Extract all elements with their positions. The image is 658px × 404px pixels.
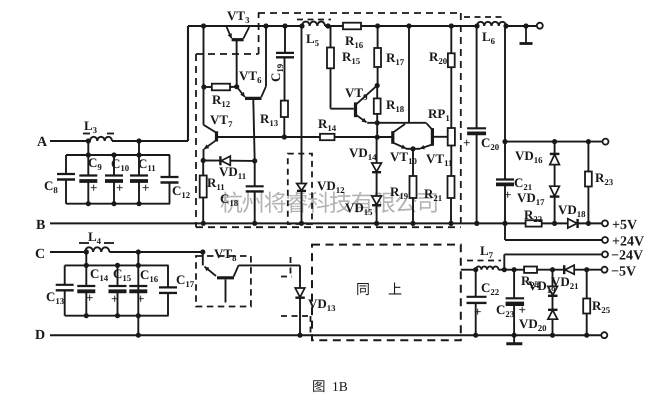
transistor VT11 xyxy=(431,128,434,146)
svg-text:上: 上 xyxy=(388,282,402,298)
dashed box around VD12 xyxy=(288,154,312,224)
svg-text:−5V: −5V xyxy=(611,265,636,280)
diode VD21 xyxy=(563,265,565,274)
wire: top +rail y=26 xyxy=(188,25,302,27)
capacitor C22 (polarized) xyxy=(475,270,477,297)
wire: +24V row xyxy=(505,239,603,241)
inductor L4 xyxy=(85,247,109,252)
capacitor C21 (polarized) xyxy=(504,26,506,180)
transistor VT6 xyxy=(237,87,245,97)
diode VD19 xyxy=(552,270,554,287)
diode VD14 xyxy=(376,137,378,163)
dashed box: same-as-above module xyxy=(312,245,461,341)
terminal: D rail right end xyxy=(601,332,607,338)
wire: VT7 base row y=137 xyxy=(217,136,320,138)
diode VD17 (zener) xyxy=(550,186,560,196)
resistor R11 xyxy=(202,161,204,176)
resistor R21 xyxy=(448,176,455,198)
wire: lower cap bank top bus xyxy=(85,252,87,265)
dashed box around VT8 xyxy=(196,256,251,307)
ground stub at top right xyxy=(525,26,527,43)
resistor R13 xyxy=(281,101,288,117)
svg-text:同: 同 xyxy=(356,282,370,298)
svg-text:图: 图 xyxy=(312,379,326,394)
capacitor C10 (polarized) xyxy=(113,155,115,176)
dashed fragments around VD13 xyxy=(290,257,292,277)
diode VD15 xyxy=(372,196,382,205)
capacitor C12 xyxy=(169,155,171,177)
capacitor C15 (polarized) xyxy=(117,265,119,286)
capacitor C20 (polarized) xyxy=(476,26,478,128)
node: junction dots on top rail xyxy=(201,23,206,28)
svg-text:+: + xyxy=(116,180,123,195)
capacitor C18 xyxy=(254,161,256,186)
resistor R16 (in series on top rail) xyxy=(343,23,361,30)
capacitor C16 (polarized) xyxy=(129,285,147,287)
wire: VT8 to VD13 xyxy=(239,264,301,266)
capacitor C8 xyxy=(65,155,67,174)
svg-text:+: + xyxy=(90,180,97,195)
wire: lower cap bank bottom bus xyxy=(65,315,169,317)
node: A rail junction dots xyxy=(86,138,91,143)
wire: collector tie line y=122.8 xyxy=(367,122,426,124)
svg-text:D: D xyxy=(35,328,45,343)
resistor R20 xyxy=(450,26,452,53)
diode VD20 xyxy=(548,309,558,311)
wire: vertical from top rail to R12 and VT7 collector xyxy=(203,26,205,125)
svg-text:+: + xyxy=(463,135,470,150)
svg-text:+: + xyxy=(504,187,511,202)
wire: cap bank bottom bus xyxy=(66,203,170,205)
capacitor C23 (polarized) xyxy=(513,270,515,299)
capacitor C13 xyxy=(64,265,66,284)
resistor R15 xyxy=(330,26,332,48)
svg-text:+: + xyxy=(519,302,526,317)
svg-text:+: + xyxy=(137,291,144,306)
wire: A rail y=141 xyxy=(50,140,90,142)
inductor L3 xyxy=(90,137,112,141)
diode VD13 xyxy=(299,265,301,288)
svg-text:+5V: +5V xyxy=(612,218,637,233)
terminal: top-right output xyxy=(537,23,543,29)
wire: vertical x=409 from top rail to tie line xyxy=(408,26,410,123)
L3 shield dashes xyxy=(83,133,90,135)
terminal: +5V output xyxy=(602,220,608,226)
resistor R25 xyxy=(586,270,588,299)
transistor VT3 xyxy=(232,38,244,41)
L6 shield dashes xyxy=(464,16,505,18)
capacitor C11 (polarized) xyxy=(138,155,140,176)
resistor R14 (in series) xyxy=(320,134,335,140)
transistor VT8 xyxy=(202,252,204,265)
capacitor C17 xyxy=(167,265,169,287)
transistor VT7 xyxy=(215,131,218,141)
resistor R17 xyxy=(377,26,379,48)
svg-text:A: A xyxy=(37,135,48,150)
terminal: upper output xyxy=(603,139,609,145)
dashed box: regulator module outline xyxy=(258,12,461,14)
svg-text:B: B xyxy=(36,218,45,233)
svg-text:+: + xyxy=(474,304,481,319)
L5 shield dashes xyxy=(297,19,331,21)
resistor R18 xyxy=(376,86,378,99)
wire: vertical x=302 from top rail to B rail xyxy=(301,26,303,184)
svg-text:+24V: +24V xyxy=(612,235,644,250)
wire: D rail y=335.2 xyxy=(50,334,602,336)
inductor L5 xyxy=(302,22,325,26)
wire: L7 row y=269.7 xyxy=(461,269,476,271)
transistor VT9 xyxy=(331,108,354,110)
wire: A rail riser to top rail xyxy=(187,26,189,141)
diode VD16 (zener) xyxy=(554,142,556,154)
resistor R22 (in series on B rail) xyxy=(526,220,542,226)
inductor L7 xyxy=(476,266,499,269)
resistor R24 (in series) xyxy=(524,267,537,273)
wire: +12 output row y=141.6 xyxy=(505,141,603,143)
capacitor C9 (polarized) xyxy=(87,155,89,176)
resistor R12 xyxy=(204,86,212,88)
svg-text:+: + xyxy=(142,180,149,195)
L4 shield dashes xyxy=(79,242,89,244)
resistor R19 xyxy=(412,149,414,176)
capacitor C19 (rotated label) xyxy=(284,26,286,53)
wire: vertical x=138.3 from C rail to D rail xyxy=(137,252,139,335)
transistor VT10 xyxy=(391,131,394,144)
wire: -24V row xyxy=(504,253,603,255)
L7 shield dashes xyxy=(467,260,501,262)
ground symbol below C23 xyxy=(513,335,515,343)
node: emitter junction xyxy=(406,148,420,150)
terminal: -24V output xyxy=(602,251,608,257)
terminal: +24V output xyxy=(602,237,608,243)
wire: B rail y=223.4 xyxy=(50,222,526,224)
potentiometer RP1 xyxy=(448,128,455,146)
diode VD12 xyxy=(297,184,307,191)
svg-text:−24V: −24V xyxy=(611,249,643,264)
diode VD11 xyxy=(203,160,220,162)
terminal: -5V output xyxy=(602,267,608,273)
svg-text:+: + xyxy=(111,291,118,306)
wire: C rail y=252 xyxy=(50,251,85,253)
capacitor C14 (polarized) xyxy=(85,265,87,286)
svg-text:+: + xyxy=(86,290,93,305)
svg-text:C: C xyxy=(35,247,45,262)
diode VD18 xyxy=(568,219,577,228)
inductor L6 xyxy=(477,22,506,26)
wire: cap bank top bus xyxy=(87,141,89,155)
resistor R23 xyxy=(587,142,589,172)
svg-text:1B: 1B xyxy=(332,379,348,394)
